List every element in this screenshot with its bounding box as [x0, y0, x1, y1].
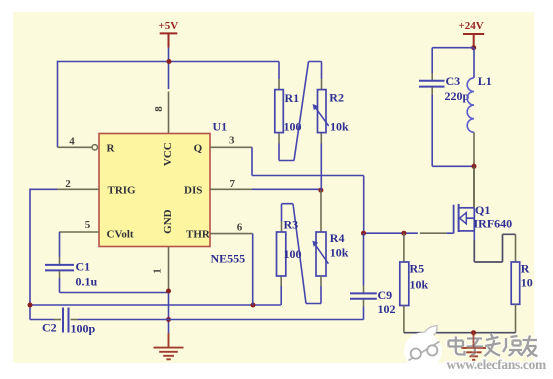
svg-text:THR: THR [186, 229, 211, 241]
svg-text:0.1u: 0.1u [76, 274, 98, 288]
pin 1 GND stub [168, 247, 170, 289]
wire C1 bottom to gnd node [59, 271, 61, 278]
svg-text:8: 8 [153, 106, 165, 112]
pin 5 CVolt stub [59, 231, 99, 233]
resistor R4 (pot) [320, 190, 322, 232]
wire DIS to R2/R4 junction [252, 188, 321, 190]
wire R2 bottom to DIS node [320, 144, 322, 191]
wire bottom R5-R [404, 332, 516, 334]
inductor L1 [473, 48, 475, 78]
svg-text:R3: R3 [284, 218, 299, 232]
svg-text:DIS: DIS [184, 185, 202, 197]
svg-text:Q1: Q1 [475, 203, 490, 217]
wire R3 bottom [280, 286, 282, 305]
node GND-rail junction [166, 317, 171, 322]
svg-text:+5V: +5V [159, 20, 179, 32]
resistor R3 [280, 222, 282, 287]
wire top +5V rail [58, 61, 280, 63]
svg-text:10k: 10k [330, 119, 349, 133]
node C1-GND junction [166, 289, 171, 294]
resistor R2 (pot) [320, 79, 322, 144]
svg-text:IRF640: IRF640 [474, 217, 513, 231]
resistor R [515, 234, 517, 262]
svg-text:GND: GND [162, 209, 174, 234]
wire R1 bottom zigzag to R2 top [279, 62, 322, 161]
node +24V junction [471, 45, 476, 50]
svg-text:U1: U1 [213, 119, 228, 133]
svg-text:5: 5 [85, 219, 91, 231]
wire bottom rail with C2 [30, 319, 54, 321]
capacitor C2 [63, 308, 69, 333]
wire GND pin down [168, 289, 170, 334]
svg-text:102: 102 [378, 302, 396, 316]
resistor R1 [278, 62, 280, 80]
pin 3 Q stub [210, 146, 252, 148]
svg-text:C1: C1 [76, 259, 91, 273]
wire THR/TRIG node rail y=305 [30, 304, 281, 306]
wire drain [473, 166, 475, 208]
op-amp U1 NE555 chip body [99, 134, 210, 247]
svg-text:R4: R4 [330, 231, 345, 245]
svg-text:www.elecfans.com: www.elecfans.com [447, 357, 546, 372]
svg-text:CVolt: CVolt [107, 228, 134, 240]
svg-text:1: 1 [152, 268, 164, 274]
svg-text:+24V: +24V [459, 20, 484, 32]
capacitor C1 [45, 265, 74, 271]
ground (right) [461, 333, 486, 360]
node TRIG corner junction [28, 303, 33, 308]
svg-text:R: R [521, 261, 530, 275]
node R5 junction [401, 231, 406, 236]
pin 8 stub VCC [168, 92, 170, 134]
svg-text:Q: Q [194, 143, 203, 155]
svg-text:100p: 100p [71, 321, 96, 335]
node C9 junction [361, 231, 366, 236]
node +5V junction [167, 59, 172, 64]
svg-text:VCC: VCC [162, 142, 174, 166]
pin 4 stub with bubble [58, 146, 93, 148]
pin 6 THR stub [210, 233, 253, 235]
watermark logo [404, 326, 442, 370]
wire TRIG to left vertical [30, 189, 57, 320]
wire R4 bottom zigzag to R3 top [320, 276, 322, 286]
wire source routing [473, 231, 475, 240]
node DIS junction [318, 188, 323, 193]
svg-text:220p: 220p [445, 89, 470, 103]
resistor R5 [403, 233, 405, 262]
svg-text:TRIG: TRIG [108, 185, 137, 197]
wire THR down [252, 234, 254, 305]
watermark chinese text 电子发烧友 (approximated strokes) [449, 334, 538, 357]
svg-text:6: 6 [237, 221, 243, 233]
ground (right, visible over watermark) [461, 333, 486, 360]
svg-text:3: 3 [229, 135, 235, 147]
wire Q output routing [252, 147, 364, 233]
wire gate line [364, 232, 418, 234]
svg-text:L1: L1 [478, 74, 492, 88]
svg-text:NE555: NE555 [211, 251, 246, 265]
wire C3 branch top [432, 48, 474, 73]
capacitor C3 [419, 81, 445, 87]
svg-text:2: 2 [65, 178, 71, 190]
node L1/C3 bottom junction [472, 164, 477, 169]
svg-text:R: R [107, 143, 116, 155]
wire left vertical to pin R [57, 61, 59, 148]
svg-text:R2: R2 [329, 90, 344, 104]
svg-text:10k: 10k [410, 277, 429, 291]
svg-text:C3: C3 [446, 74, 461, 88]
svg-text:7: 7 [229, 178, 235, 190]
svg-text:R5: R5 [410, 262, 425, 276]
svg-text:10k: 10k [330, 246, 349, 260]
svg-text:100: 100 [284, 247, 302, 261]
ground (555) [154, 333, 184, 359]
wire CVolt down to C1 [59, 232, 61, 257]
transistor Q1 IRF640 [454, 204, 475, 234]
svg-text:C2: C2 [42, 321, 57, 335]
svg-text:10: 10 [521, 276, 533, 290]
svg-text:C9: C9 [378, 288, 393, 302]
svg-text:R1: R1 [285, 91, 300, 105]
capacitor C9 [363, 233, 365, 285]
svg-text:4: 4 [69, 136, 75, 148]
power +5V [159, 20, 179, 48]
wire VCC drop [168, 48, 170, 90]
pin 7 DIS stub [210, 188, 252, 190]
pin 2 TRIG stub [57, 188, 99, 190]
node bottom ground junction [471, 330, 476, 335]
node THR junction [251, 303, 256, 308]
